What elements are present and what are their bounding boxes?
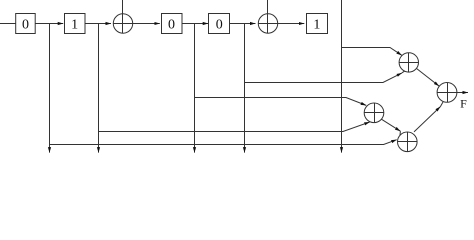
wire stage3 to stage4 bbox=[182, 23, 208, 25]
flip-flop stage 2 value 1 bbox=[65, 14, 86, 34]
wire stage4 to xor2 bbox=[230, 23, 256, 25]
xor gate X1 feedback bbox=[113, 14, 132, 33]
wire tap drop at x=195 bbox=[194, 24, 196, 153]
flip-flop stage 5 value 1 bbox=[307, 14, 328, 34]
wire xorA to xorB diagonal bbox=[381, 119, 400, 131]
xor gate B bbox=[398, 132, 418, 152]
wire xor3 to xorC diagonal bbox=[416, 68, 439, 86]
flip-flop stage 4 value 0 bbox=[209, 14, 230, 34]
wire xor2 horizontal through bbox=[258, 23, 277, 25]
xor gate A bbox=[364, 103, 384, 123]
wire xor1 horizontal through bbox=[113, 23, 132, 25]
wire tap drop at x=50 bbox=[49, 24, 51, 153]
xor3 cross bbox=[399, 62, 418, 64]
wire xor1 to stage3 bbox=[133, 23, 160, 25]
wire tap x100 to xorA lower input bbox=[99, 122, 370, 132]
wire xor1 vertical feedback from top bbox=[122, 0, 124, 34]
wire tap x342 to xor3 upper input bbox=[342, 48, 402, 56]
wire xor2 vertical feedback from top bbox=[267, 0, 269, 34]
xorB cross bbox=[398, 141, 418, 143]
wire tap x50 to xorB input bbox=[50, 140, 397, 145]
wire tap x244 to xor3 lower input bbox=[245, 73, 403, 83]
xorA cross bbox=[364, 112, 384, 114]
xor gate X2 feedback bbox=[258, 14, 277, 33]
wire output F bbox=[457, 92, 468, 94]
wire stage2 to xor1 bbox=[85, 23, 111, 25]
wire tap drop at x=100 bbox=[98, 24, 100, 153]
flip-flop stage 3 value 0 bbox=[162, 14, 183, 34]
wire input left bbox=[0, 23, 16, 25]
svg-text:1: 1 bbox=[313, 18, 320, 33]
xor gate X3 top right bbox=[399, 53, 418, 72]
svg-text:0: 0 bbox=[168, 18, 175, 33]
xor gate C final bbox=[437, 83, 457, 103]
flip-flop stage 1 value 0 bbox=[16, 14, 36, 34]
wire xor2 to stage5 bbox=[278, 23, 305, 25]
wire stage1 to stage2 bbox=[35, 23, 63, 25]
svg-text:1: 1 bbox=[71, 18, 78, 33]
wire xorB to xorC diagonal with arrow before circle bbox=[414, 107, 440, 132]
svg-text:F: F bbox=[460, 97, 467, 111]
svg-text:0: 0 bbox=[22, 18, 29, 33]
svg-text:0: 0 bbox=[216, 18, 223, 33]
xorC cross bbox=[437, 92, 457, 94]
wire long vertical tap at x=342 from top bbox=[341, 0, 343, 153]
wire tap drop at x=244.7 bbox=[244, 24, 246, 153]
wire tap x195 to xorA upper input bbox=[195, 98, 367, 106]
